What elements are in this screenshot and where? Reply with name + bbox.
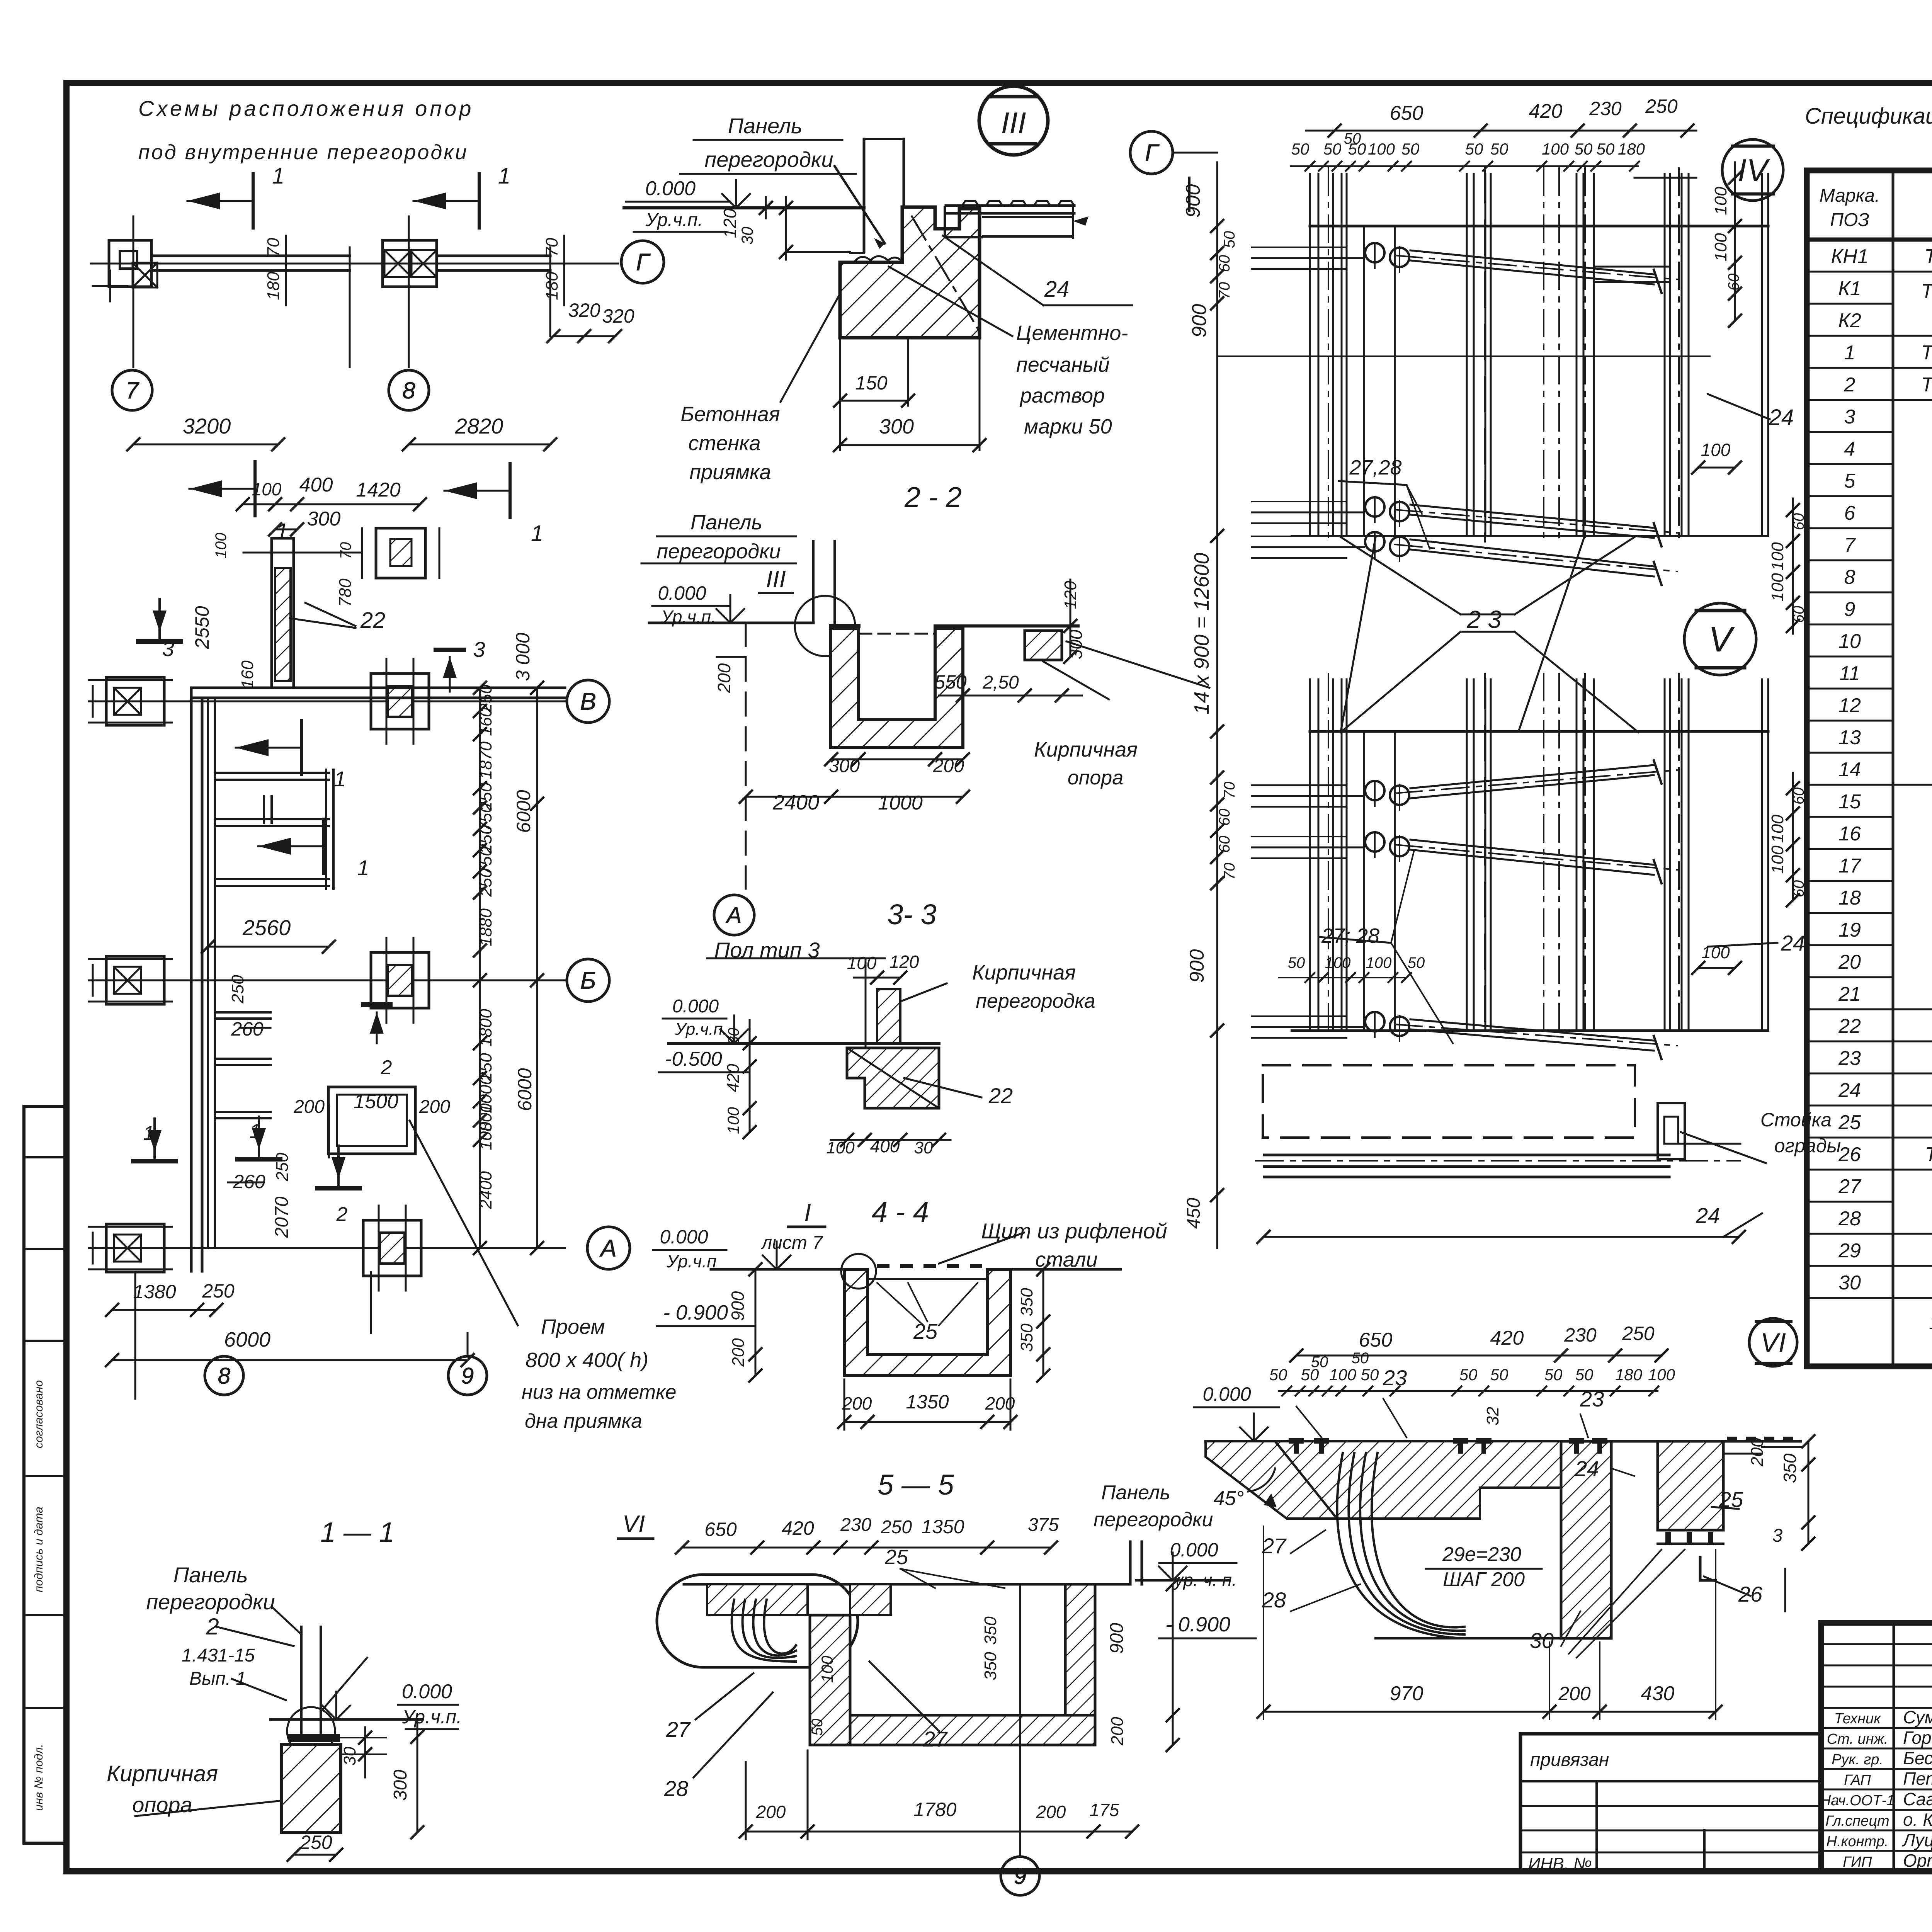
svg-text:6000: 6000	[224, 1328, 270, 1351]
svg-text:900: 900	[728, 1291, 748, 1321]
svg-text:350: 350	[1017, 1288, 1036, 1316]
svg-text:250: 250	[1645, 95, 1678, 117]
svg-text:50: 50	[1344, 130, 1361, 147]
svg-text:5: 5	[1844, 470, 1856, 492]
svg-text:2: 2	[336, 1203, 348, 1226]
svg-text:2400: 2400	[476, 1171, 495, 1209]
svg-text:27: 27	[923, 1727, 948, 1751]
svg-text:200: 200	[756, 1802, 786, 1822]
svg-text:Ст. инж.: Ст. инж.	[1827, 1731, 1888, 1747]
svg-text:Пол тип 3: Пол тип 3	[714, 938, 820, 962]
svg-text:III: III	[1001, 106, 1026, 140]
svg-text:А: А	[599, 1235, 616, 1262]
svg-text:350: 350	[981, 1652, 1000, 1680]
svg-text:песчаный: песчаный	[1016, 353, 1110, 376]
svg-text:22: 22	[1838, 1015, 1861, 1037]
svg-text:50: 50	[1490, 1366, 1509, 1384]
svg-text:I: I	[804, 1199, 811, 1226]
svg-text:1870: 1870	[476, 742, 495, 779]
svg-text:Панель: Панель	[728, 114, 803, 138]
svg-text:0.000: 0.000	[645, 177, 696, 200]
svg-text:900: 900	[1107, 1623, 1127, 1654]
svg-text:- 0.900: - 0.900	[663, 1301, 728, 1324]
svg-text:160: 160	[238, 660, 257, 689]
svg-text:26: 26	[1738, 1582, 1763, 1606]
svg-text:200: 200	[293, 1097, 325, 1117]
svg-text:приямка: приямка	[689, 461, 771, 484]
svg-text:50: 50	[1597, 140, 1615, 158]
svg-text:30: 30	[914, 1138, 933, 1157]
svg-text:1: 1	[357, 855, 369, 880]
svg-text:VI: VI	[1760, 1328, 1786, 1358]
svg-text:ПОЗ: ПОЗ	[1830, 210, 1869, 230]
svg-text:12: 12	[1838, 694, 1861, 717]
svg-text:27,28: 27,28	[1349, 456, 1401, 479]
svg-text:50: 50	[1291, 140, 1310, 158]
svg-text:230: 230	[1564, 1324, 1597, 1346]
svg-text:3: 3	[1772, 1526, 1783, 1546]
svg-text:0.000: 0.000	[660, 1226, 708, 1248]
svg-text:1380: 1380	[133, 1281, 176, 1303]
svg-text:15: 15	[1838, 791, 1861, 813]
svg-text:50: 50	[1323, 140, 1342, 158]
svg-text:9: 9	[461, 1363, 474, 1388]
svg-text:100: 100	[1701, 943, 1730, 962]
svg-text:30: 30	[1838, 1272, 1861, 1294]
svg-text:27: 27	[666, 1717, 691, 1742]
svg-text:30: 30	[340, 1747, 359, 1765]
svg-text:60: 60	[1725, 274, 1742, 291]
svg-text:23: 23	[1383, 1366, 1407, 1390]
svg-text:29е=230: 29е=230	[1442, 1543, 1521, 1566]
svg-text:250: 250	[476, 868, 495, 897]
svg-text:100: 100	[1368, 140, 1395, 158]
svg-text:400: 400	[299, 474, 333, 496]
svg-text:120: 120	[889, 952, 919, 972]
svg-text:22: 22	[988, 1083, 1013, 1108]
svg-text:1350: 1350	[921, 1516, 964, 1537]
svg-text:420: 420	[1529, 100, 1563, 122]
svg-text:50: 50	[809, 1719, 826, 1736]
svg-text:4 - 4: 4 - 4	[872, 1196, 929, 1228]
svg-text:24: 24	[1575, 1456, 1599, 1481]
svg-text:50: 50	[1221, 231, 1238, 248]
svg-text:2560: 2560	[242, 915, 291, 940]
svg-text:80: 80	[725, 1028, 742, 1045]
svg-text:70: 70	[264, 238, 283, 257]
svg-text:Луценко: Луценко	[1902, 1830, 1932, 1850]
svg-text:250: 250	[228, 975, 247, 1004]
svg-text:0.000: 0.000	[672, 996, 719, 1017]
svg-text:13: 13	[1838, 726, 1861, 749]
svg-text:3: 3	[162, 636, 174, 661]
svg-text:420: 420	[724, 1064, 743, 1092]
svg-text:30: 30	[738, 226, 756, 245]
svg-text:В: В	[580, 689, 596, 715]
svg-text:ТП 904-1- КЖ, лист 19: ТП 904-1- КЖ, лист 19	[1924, 245, 1932, 268]
svg-text:1420: 1420	[356, 479, 401, 501]
svg-text:21: 21	[1838, 983, 1861, 1005]
svg-text:III: III	[766, 566, 786, 593]
svg-text:430: 430	[1641, 1682, 1675, 1705]
svg-text:28: 28	[1262, 1588, 1286, 1612]
svg-text:Стойка: Стойка	[1760, 1109, 1832, 1131]
svg-text:100: 100	[1366, 954, 1392, 971]
svg-text:Спецификация к схеме распол: Спецификация к схеме расположения элемен…	[1805, 104, 1932, 129]
svg-text:согласовано: согласовано	[32, 1380, 45, 1448]
svg-text:23: 23	[1580, 1387, 1604, 1411]
svg-text:под внутренние перегородки: под внутренние перегородки	[138, 141, 468, 164]
svg-text:Цементно-: Цементно-	[1016, 321, 1128, 345]
svg-text:Гл.спецт: Гл.спецт	[1825, 1813, 1889, 1829]
svg-text:50: 50	[1352, 1350, 1369, 1367]
svg-text:50: 50	[1459, 1366, 1478, 1384]
svg-text:Кирпичная: Кирпичная	[107, 1761, 218, 1786]
svg-text:150: 150	[855, 372, 888, 394]
svg-text:100: 100	[1768, 845, 1787, 874]
svg-text:2 - 2: 2 - 2	[904, 481, 962, 513]
svg-text:800 х 400( h): 800 х 400( h)	[526, 1349, 648, 1372]
svg-text:5 — 5: 5 — 5	[878, 1469, 954, 1501]
svg-text:низ на отметке: низ на отметке	[522, 1381, 677, 1403]
svg-text:Марка.: Марка.	[1820, 185, 1880, 206]
svg-text:200: 200	[1036, 1802, 1066, 1822]
svg-text:9: 9	[1844, 598, 1855, 621]
svg-text:Ур.ч.п: Ур.ч.п	[666, 1251, 716, 1271]
svg-text:300: 300	[829, 756, 860, 776]
svg-text:Петровский: Петровский	[1903, 1769, 1932, 1789]
svg-text:260: 260	[231, 1018, 264, 1040]
svg-text:300: 300	[307, 508, 341, 530]
svg-text:Орташевски: Орташевски	[1903, 1850, 1932, 1871]
svg-text:Кирпичная: Кирпичная	[972, 961, 1076, 984]
svg-text:650: 650	[704, 1519, 737, 1540]
svg-text:450: 450	[1184, 1198, 1204, 1229]
svg-text:6: 6	[1844, 502, 1855, 524]
svg-text:25: 25	[913, 1319, 938, 1344]
svg-text:300: 300	[879, 415, 914, 438]
svg-text:1: 1	[531, 521, 543, 546]
svg-text:6000: 6000	[514, 1068, 536, 1111]
svg-text:перегородки: перегородки	[656, 540, 781, 563]
svg-text:100: 100	[1325, 954, 1351, 971]
svg-text:300: 300	[390, 1770, 411, 1801]
svg-text:50: 50	[1288, 954, 1305, 971]
svg-text:26: 26	[1838, 1143, 1861, 1166]
svg-text:2070: 2070	[272, 1196, 292, 1238]
svg-text:550: 550	[934, 671, 967, 693]
svg-text:100: 100	[213, 533, 230, 559]
svg-text:20: 20	[1838, 951, 1861, 973]
svg-text:180: 180	[264, 272, 283, 300]
svg-text:250: 250	[273, 1153, 292, 1182]
svg-text:24: 24	[1838, 1079, 1861, 1102]
svg-text:8: 8	[1844, 566, 1855, 588]
svg-text:970: 970	[1390, 1682, 1423, 1705]
svg-text:50: 50	[1311, 1354, 1328, 1371]
svg-text:180: 180	[1618, 140, 1645, 158]
svg-text:45°: 45°	[1214, 1487, 1244, 1510]
svg-text:1: 1	[1844, 342, 1855, 364]
svg-text:27: 27	[1262, 1534, 1287, 1558]
svg-text:опора: опора	[1068, 767, 1123, 789]
svg-text:100: 100	[847, 953, 877, 973]
svg-text:0.000: 0.000	[1170, 1539, 1218, 1561]
svg-text:250: 250	[202, 1280, 235, 1302]
svg-text:14 х 900 = 12600: 14 х 900 = 12600	[1190, 553, 1213, 715]
svg-text:60: 60	[1216, 255, 1233, 272]
svg-text:200: 200	[714, 663, 734, 693]
svg-text:100: 100	[1768, 573, 1787, 602]
svg-text:марки 50: марки 50	[1024, 415, 1112, 438]
svg-text:200: 200	[419, 1097, 450, 1117]
svg-text:100: 100	[724, 1107, 742, 1134]
svg-text:14: 14	[1838, 759, 1861, 781]
svg-text:Кирпичная: Кирпичная	[1034, 738, 1138, 761]
svg-text:200: 200	[1108, 1717, 1127, 1746]
svg-text:3200: 3200	[183, 414, 231, 438]
svg-text:Горская: Горская	[1903, 1728, 1932, 1748]
svg-text:10: 10	[1838, 630, 1861, 653]
svg-text:перегородки: перегородки	[1094, 1509, 1213, 1531]
svg-text:100: 100	[1768, 542, 1787, 571]
svg-text:24: 24	[1696, 1203, 1720, 1228]
svg-text:8: 8	[218, 1363, 230, 1388]
svg-text:28: 28	[664, 1776, 688, 1801]
svg-text:350: 350	[1780, 1453, 1800, 1483]
svg-text:200: 200	[933, 756, 964, 776]
svg-text:70: 70	[1216, 282, 1233, 299]
svg-text:Схемы расположения опор: Схемы расположения опор	[138, 96, 474, 121]
svg-text:7: 7	[1844, 534, 1856, 556]
svg-text:100: 100	[1329, 1366, 1357, 1384]
svg-text:900: 900	[1186, 949, 1208, 983]
svg-text:300: 300	[1066, 629, 1086, 659]
svg-text:100: 100	[818, 1655, 836, 1683]
svg-text:перегородка: перегородка	[976, 990, 1095, 1012]
svg-text:2820: 2820	[455, 414, 503, 438]
svg-text:8: 8	[402, 378, 415, 403]
svg-text:420: 420	[782, 1517, 814, 1539]
svg-text:1: 1	[498, 163, 510, 189]
svg-text:50: 50	[1465, 140, 1483, 158]
svg-text:ГИП: ГИП	[1843, 1854, 1872, 1870]
svg-text:К2: К2	[1838, 310, 1861, 332]
svg-text:24: 24	[1769, 405, 1794, 430]
svg-text:перегородки: перегородки	[146, 1590, 275, 1614]
svg-text:100: 100	[826, 1138, 855, 1157]
svg-text:Г: Г	[636, 249, 651, 276]
svg-text:650: 650	[1359, 1329, 1393, 1351]
svg-text:70: 70	[337, 542, 354, 560]
svg-text:50: 50	[1401, 140, 1420, 158]
svg-text:1000: 1000	[878, 792, 923, 814]
svg-text:инв № подл.: инв № подл.	[32, 1744, 45, 1811]
svg-text:27; 28: 27; 28	[1321, 924, 1379, 947]
svg-text:350: 350	[1017, 1323, 1036, 1352]
svg-text:50: 50	[1490, 140, 1509, 158]
svg-text:25: 25	[1838, 1111, 1861, 1134]
svg-text:Суман: Суман	[1903, 1707, 1932, 1727]
svg-text:2550: 2550	[191, 606, 213, 649]
svg-text:Панель: Панель	[173, 1563, 248, 1587]
svg-text:Вып. 1: Вып. 1	[189, 1668, 246, 1689]
svg-text:стенка: стенка	[688, 432, 760, 455]
svg-text:перегородки: перегородки	[704, 147, 833, 172]
svg-text:200: 200	[842, 1393, 872, 1413]
svg-text:160: 160	[476, 707, 495, 736]
svg-text:25: 25	[1719, 1487, 1743, 1512]
svg-text:23: 23	[1466, 605, 1508, 633]
svg-text:2: 2	[1844, 374, 1855, 396]
svg-text:16: 16	[1838, 823, 1861, 845]
svg-text:Ур.ч.п.: Ур.ч.п.	[661, 607, 716, 627]
svg-text:29: 29	[1838, 1240, 1861, 1262]
svg-text:200: 200	[1748, 1438, 1767, 1467]
svg-text:0.000: 0.000	[658, 582, 706, 604]
svg-text:350: 350	[981, 1616, 1000, 1645]
svg-text:К1: К1	[1838, 277, 1861, 300]
svg-text:100: 100	[1711, 187, 1730, 215]
svg-text:IV: IV	[1738, 153, 1770, 188]
svg-text:650: 650	[1390, 102, 1423, 124]
svg-text:Техник: Техник	[1834, 1711, 1881, 1727]
svg-text:70: 70	[543, 238, 561, 257]
svg-text:900: 900	[1188, 304, 1211, 338]
svg-text:ШАГ 200: ШАГ 200	[1443, 1568, 1525, 1591]
svg-text:1: 1	[334, 767, 346, 791]
svg-text:Ур.ч.п.: Ур.ч.п.	[645, 210, 703, 230]
svg-text:-0.500: -0.500	[665, 1048, 722, 1070]
svg-text:привязан: привязан	[1530, 1750, 1609, 1770]
svg-text:опора: опора	[132, 1793, 192, 1817]
svg-text:Панель: Панель	[1101, 1481, 1170, 1504]
svg-text:Рук. гр.: Рук. гр.	[1832, 1752, 1883, 1768]
svg-text:50: 50	[1408, 954, 1425, 971]
svg-text:V: V	[1708, 620, 1735, 659]
svg-text:1500: 1500	[354, 1090, 398, 1113]
svg-text:30: 30	[1530, 1628, 1554, 1653]
svg-text:400: 400	[870, 1136, 900, 1156]
svg-text:60: 60	[1216, 836, 1233, 853]
svg-text:1780: 1780	[913, 1799, 956, 1820]
svg-text:2400: 2400	[772, 791, 819, 814]
svg-text:о. Кияшко: о. Кияшко	[1903, 1810, 1932, 1830]
svg-text:раствор: раствор	[1019, 384, 1105, 407]
svg-text:2,50: 2,50	[982, 672, 1019, 693]
svg-text:0.000: 0.000	[402, 1680, 452, 1703]
svg-text:70: 70	[1221, 782, 1238, 799]
svg-text:3: 3	[1844, 406, 1855, 428]
svg-text:50: 50	[1544, 1366, 1563, 1384]
svg-text:ур. ч. п.: ур. ч. п.	[1173, 1570, 1237, 1590]
svg-text:230: 230	[840, 1515, 871, 1535]
svg-text:КН1: КН1	[1831, 245, 1868, 268]
svg-text:50: 50	[1361, 1366, 1379, 1384]
svg-text:1: 1	[250, 1120, 261, 1143]
svg-text:2: 2	[381, 1056, 392, 1079]
svg-text:230: 230	[1589, 98, 1622, 119]
svg-text:100: 100	[252, 479, 282, 499]
svg-text:120: 120	[720, 208, 740, 238]
svg-text:320: 320	[602, 305, 634, 327]
svg-text:22: 22	[360, 608, 386, 633]
svg-text:1: 1	[272, 163, 284, 189]
svg-text:180: 180	[1615, 1366, 1643, 1384]
svg-text:Бескоровайный: Бескоровайный	[1903, 1748, 1932, 1768]
svg-text:250: 250	[299, 1832, 332, 1853]
svg-text:лист 7: лист 7	[760, 1233, 823, 1253]
svg-text:100: 100	[1648, 1366, 1675, 1384]
svg-text:3: 3	[473, 637, 485, 662]
svg-text:ТП 904-1- -КЖ, лист 17: ТП 904-1- -КЖ, лист 17	[1921, 280, 1932, 303]
svg-text:100: 100	[476, 1122, 495, 1150]
svg-text:подпись и дата: подпись и дата	[32, 1507, 45, 1592]
svg-text:1350: 1350	[906, 1391, 949, 1413]
svg-text:250: 250	[1622, 1323, 1655, 1344]
svg-text:VI: VI	[622, 1511, 645, 1537]
svg-text:24: 24	[1044, 277, 1070, 302]
svg-text:0.000: 0.000	[1202, 1383, 1251, 1405]
svg-text:100: 100	[1542, 140, 1569, 158]
svg-text:375: 375	[1028, 1515, 1059, 1535]
svg-text:900: 900	[1182, 184, 1204, 218]
svg-text:Нач.ООТ-1: Нач.ООТ-1	[1820, 1793, 1895, 1809]
svg-text:Щит из рифленой: Щит из рифленой	[981, 1219, 1167, 1243]
svg-text:32: 32	[1483, 1407, 1502, 1426]
svg-text:4: 4	[1844, 438, 1855, 460]
svg-text:180: 180	[543, 272, 561, 300]
svg-text:ТП 904-1- -КЖИ-МН 14: ТП 904-1- -КЖИ-МН 14	[1925, 1143, 1932, 1166]
svg-text:3- 3: 3- 3	[887, 898, 937, 930]
svg-text:стали: стали	[1035, 1248, 1097, 1271]
svg-text:А: А	[726, 903, 742, 928]
svg-text:1800: 1800	[476, 1009, 495, 1047]
svg-text:19: 19	[1838, 919, 1861, 941]
svg-text:260: 260	[233, 1171, 265, 1192]
svg-text:100: 100	[1701, 440, 1731, 460]
svg-text:Г: Г	[1145, 140, 1160, 167]
svg-text:18: 18	[1838, 887, 1861, 909]
svg-text:1.431-15: 1.431-15	[182, 1645, 255, 1666]
svg-text:60: 60	[1216, 809, 1233, 826]
svg-text:Н.контр.: Н.контр.	[1827, 1833, 1889, 1850]
svg-text:175: 175	[1090, 1800, 1119, 1820]
svg-text:50: 50	[1575, 140, 1593, 158]
svg-text:17: 17	[1838, 855, 1862, 877]
svg-text:Проем: Проем	[541, 1315, 605, 1338]
svg-text:Саакьянц: Саакьянц	[1903, 1789, 1932, 1809]
svg-text:420: 420	[1490, 1327, 1524, 1349]
svg-text:7: 7	[126, 378, 139, 403]
svg-text:6000: 6000	[513, 790, 534, 833]
svg-text:ТП 904-1- -КЖ, лист 59: ТП 904-1- -КЖ, лист 59	[1921, 374, 1932, 396]
svg-text:70: 70	[1221, 863, 1238, 880]
svg-text:11: 11	[1839, 662, 1860, 685]
svg-text:ТП 904-1- -КЖ, лист 34: ТП 904-1- -КЖ, лист 34	[1921, 342, 1932, 364]
svg-text:780: 780	[336, 578, 355, 607]
svg-text:2: 2	[206, 1614, 219, 1639]
svg-text:200: 200	[985, 1393, 1015, 1413]
svg-text:Бетонная: Бетонная	[680, 403, 780, 426]
svg-text:1.400 - 15 В.1 540 - 09: 1.400 - 15 В.1 540 - 09	[1929, 1311, 1932, 1334]
svg-text:ГАП: ГАП	[1844, 1772, 1871, 1788]
svg-text:Ур.ч.п.: Ур.ч.п.	[675, 1020, 728, 1039]
svg-text:50: 50	[1269, 1366, 1287, 1384]
svg-text:320: 320	[568, 299, 600, 321]
svg-text:200: 200	[1558, 1683, 1591, 1704]
svg-text:27: 27	[1838, 1175, 1862, 1198]
